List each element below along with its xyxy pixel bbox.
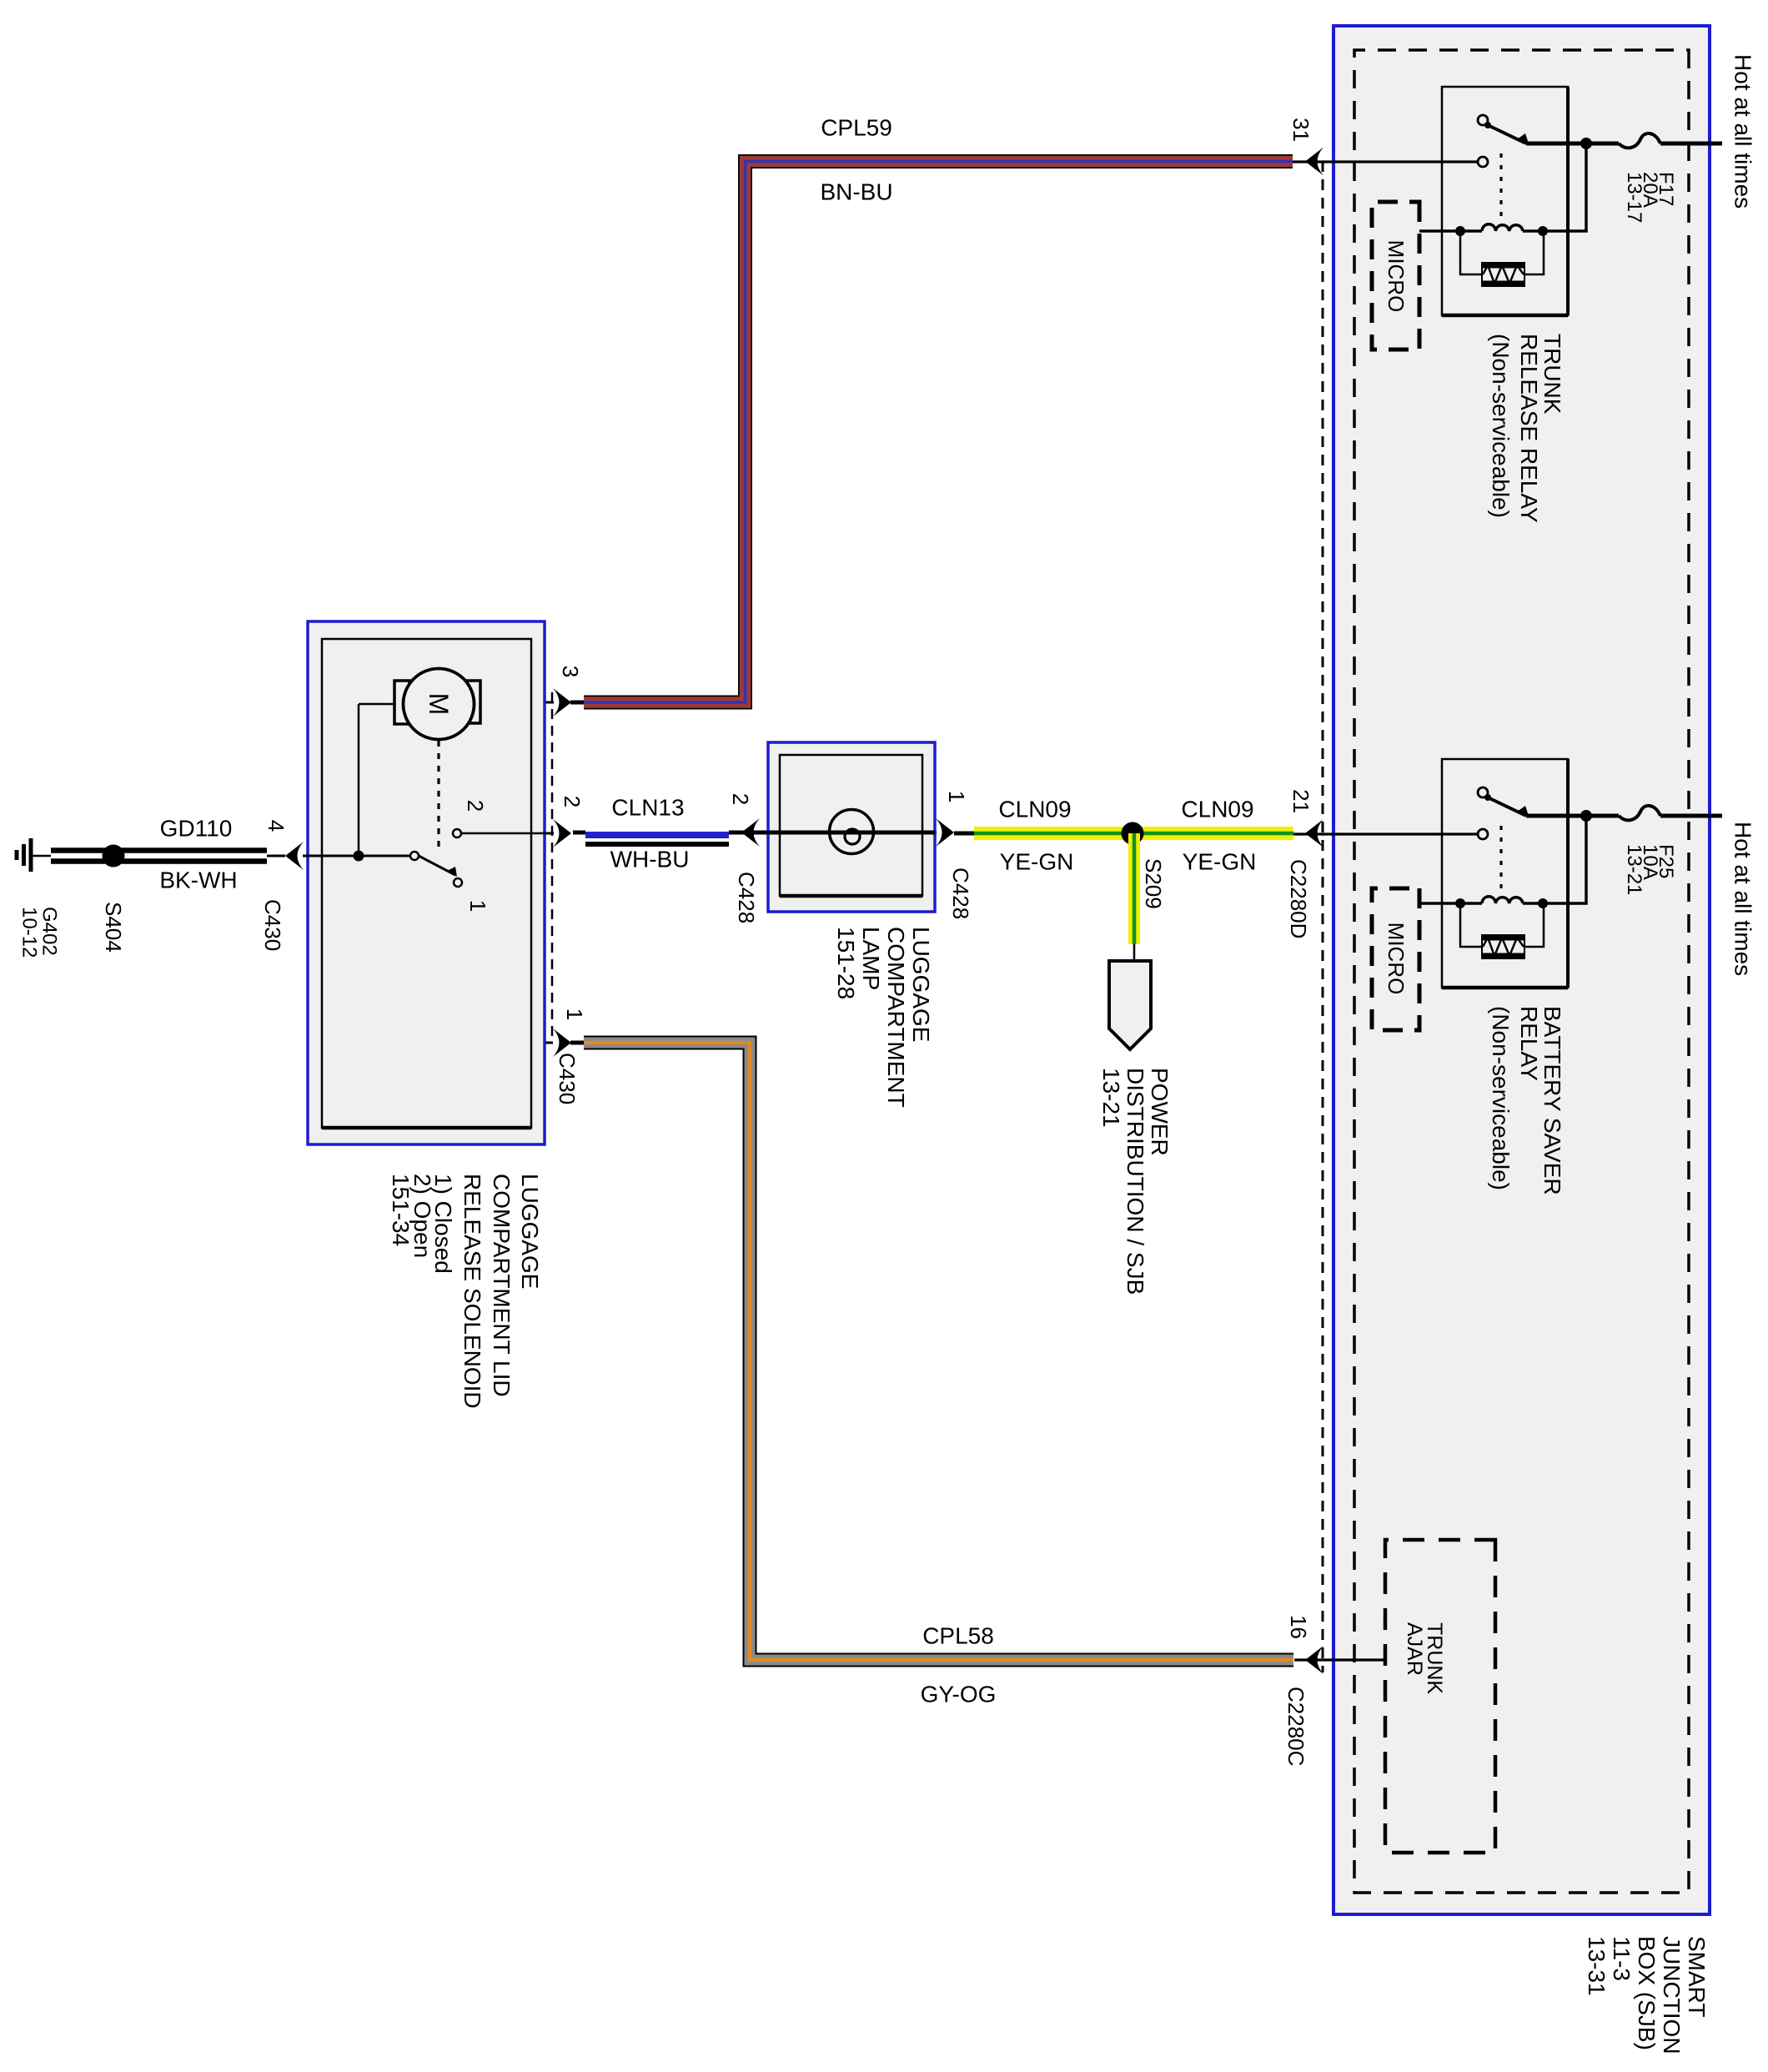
svg-text:16: 16: [1286, 1615, 1311, 1639]
svg-text:TRUNK: TRUNK: [1539, 334, 1565, 415]
svg-text:1: 1: [562, 1008, 587, 1020]
svg-text:C428: C428: [734, 872, 759, 923]
svg-text:RELAY: RELAY: [1516, 1006, 1542, 1081]
svg-text:DISTRIBUTION / SJB: DISTRIBUTION / SJB: [1123, 1068, 1148, 1295]
svg-text:BK-WH: BK-WH: [159, 868, 237, 893]
svg-text:RELEASE SOLENOID: RELEASE SOLENOID: [460, 1174, 485, 1409]
svg-text:YE-GN: YE-GN: [1183, 849, 1257, 875]
svg-text:151-28: 151-28: [833, 927, 859, 999]
svg-text:C428: C428: [948, 868, 973, 919]
svg-text:MICRO: MICRO: [1384, 923, 1409, 995]
svg-text:SMART: SMART: [1684, 1936, 1710, 2018]
svg-text:MICRO: MICRO: [1384, 240, 1409, 313]
svg-text:LUGGAGE: LUGGAGE: [517, 1174, 543, 1289]
svg-text:CPL58: CPL58: [922, 1623, 994, 1649]
svg-text:COMPARTMENT: COMPARTMENT: [883, 927, 909, 1108]
svg-text:11-3: 11-3: [1609, 1936, 1635, 1981]
svg-text:LUGGAGE: LUGGAGE: [908, 927, 934, 1042]
svg-text:(Non-serviceable): (Non-serviceable): [1488, 1006, 1514, 1190]
svg-text:BATTERY SAVER: BATTERY SAVER: [1539, 1006, 1565, 1195]
svg-text:C2280D: C2280D: [1286, 859, 1311, 938]
svg-text:13-21: 13-21: [1098, 1068, 1124, 1128]
svg-text:C430: C430: [555, 1053, 580, 1104]
svg-text:POWER: POWER: [1147, 1068, 1173, 1156]
svg-text:3: 3: [558, 666, 583, 677]
svg-text:S209: S209: [1141, 858, 1166, 909]
svg-text:C430: C430: [260, 899, 285, 951]
svg-text:BOX (SJB): BOX (SJB): [1634, 1936, 1660, 2050]
svg-text:BN-BU: BN-BU: [820, 179, 892, 205]
svg-text:2: 2: [728, 793, 753, 805]
svg-text:151-34: 151-34: [388, 1174, 414, 1246]
svg-text:1: 1: [465, 900, 490, 912]
svg-text:10-12: 10-12: [18, 907, 41, 958]
svg-text:WH-BU: WH-BU: [610, 847, 690, 873]
svg-text:13-21: 13-21: [1623, 844, 1645, 895]
svg-text:CPL59: CPL59: [821, 115, 892, 141]
svg-text:TRUNK: TRUNK: [1423, 1622, 1446, 1694]
svg-text:AJAR: AJAR: [1403, 1622, 1426, 1676]
svg-text:JUNCTION: JUNCTION: [1659, 1936, 1685, 2054]
svg-text:2: 2: [463, 800, 488, 812]
svg-text:4: 4: [264, 820, 289, 832]
svg-text:G402: G402: [38, 907, 61, 956]
svg-text:1: 1: [944, 791, 969, 802]
svg-text:CLN13: CLN13: [611, 795, 684, 821]
svg-text:13-31: 13-31: [1584, 1936, 1610, 1996]
svg-text:YE-GN: YE-GN: [1000, 849, 1074, 875]
svg-text:21: 21: [1288, 789, 1313, 813]
svg-text:GY-OG: GY-OG: [921, 1682, 997, 1707]
svg-text:(Non-serviceable): (Non-serviceable): [1488, 334, 1514, 518]
svg-text:COMPARTMENT LID: COMPARTMENT LID: [489, 1174, 515, 1397]
svg-text:Hot at all times: Hot at all times: [1730, 822, 1756, 976]
svg-text:RELEASE RELAY: RELEASE RELAY: [1516, 334, 1542, 523]
svg-text:GD110: GD110: [160, 816, 233, 842]
svg-text:CLN09: CLN09: [1181, 797, 1253, 822]
svg-text:31: 31: [1288, 118, 1313, 142]
svg-text:13-17: 13-17: [1623, 172, 1645, 223]
svg-text:S404: S404: [101, 902, 126, 953]
svg-text:C2280C: C2280C: [1283, 1687, 1308, 1766]
svg-text:2: 2: [560, 796, 585, 807]
svg-text:CLN09: CLN09: [998, 797, 1071, 822]
svg-text:LAMP: LAMP: [858, 927, 884, 990]
svg-text:Hot at all times: Hot at all times: [1730, 54, 1756, 209]
svg-text:M: M: [424, 693, 454, 716]
